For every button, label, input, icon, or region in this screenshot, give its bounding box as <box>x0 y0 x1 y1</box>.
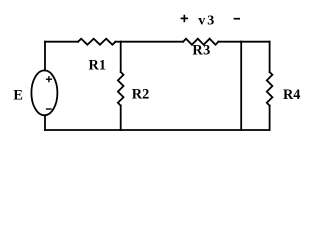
wire bottom rail (bottom-left corner to bottom-right corner) <box>45 129 270 131</box>
svg-text:v3: v3 <box>198 13 216 28</box>
minus sign of v3 polarity marking <box>234 18 240 20</box>
wire node B to R3 left terminal <box>121 41 183 43</box>
resistor R2 (vertical zigzag) <box>118 72 124 106</box>
wire R2 branch upper stub (node B down to R2 top terminal) <box>120 42 122 72</box>
minus sign inside source E <box>46 108 52 110</box>
svg-text:R2: R2 <box>132 87 149 103</box>
wire node C to top-right corner <box>241 41 269 43</box>
resistor R4 (vertical zigzag) <box>267 72 273 106</box>
wire right branch lower stub (R4 bottom terminal to bottom-right corner) <box>269 106 271 130</box>
wire right branch upper stub (top-right corner down to R4 top terminal) <box>269 42 271 72</box>
resistor R3 (zigzag, top wire) <box>183 39 218 45</box>
svg-text:R3: R3 <box>192 43 210 59</box>
voltage source E (ellipse) <box>31 70 57 115</box>
plus sign inside source E <box>46 76 52 82</box>
wire R2 branch lower stub (R2 bottom terminal to bottom wire) <box>120 106 122 130</box>
svg-text:R4: R4 <box>283 87 300 103</box>
plus sign of v3 polarity marking <box>181 15 189 23</box>
wire top-left (node top-left corner to R1 left terminal) <box>45 41 78 43</box>
wire middle vertical (node C down to bottom wire) <box>240 42 242 130</box>
wire left branch upper stub (corner down to source E top) <box>44 42 46 71</box>
resistor R1 (zigzag, top wire) <box>78 39 115 45</box>
svg-text:E: E <box>13 87 23 103</box>
wire R3 right terminal to node C (top of middle vertical wire) <box>218 41 241 43</box>
wire left branch lower stub (source E bottom to bottom-left corner) <box>44 115 46 130</box>
svg-text:R1: R1 <box>89 58 106 74</box>
wire R1 right terminal to node B (top of R2) <box>116 41 121 43</box>
